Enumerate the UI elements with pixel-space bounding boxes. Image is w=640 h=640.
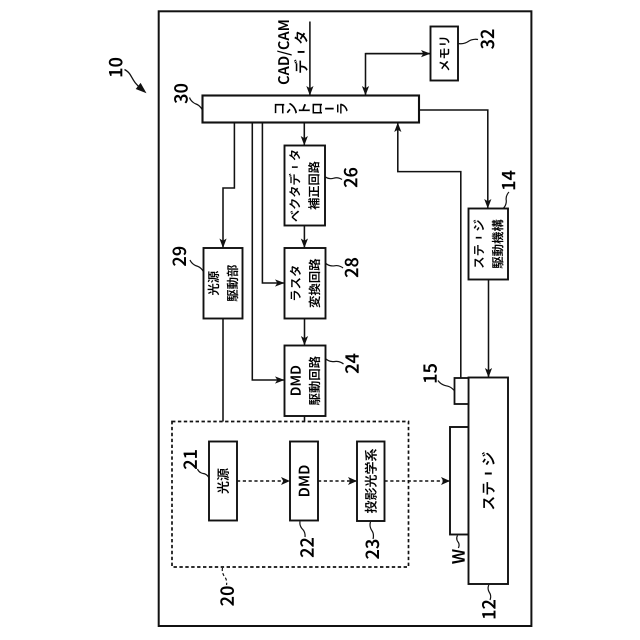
DMD box 22 [290,442,318,521]
light source driver box 29 [204,248,243,319]
label 20 [220,586,234,605]
wire controller-memory [366,54,431,96]
wire controller to vector box [303,123,305,146]
squiggle 26 [326,177,343,180]
wire CAD/CAM data input [309,22,311,96]
text projection optics [365,449,377,513]
memory box 32 [431,27,459,81]
text vector data correction [289,150,320,221]
label 10 [109,58,123,77]
text stage drive mechanism [473,219,503,268]
wire DMD drive to DMD [304,416,306,442]
wire stage drive to stage [488,280,490,378]
text light source [217,468,229,493]
text CAD/CAM data [277,20,307,84]
squiggle 28 [326,264,343,269]
light source box 21 [209,442,237,521]
squiggle 15 [438,381,455,392]
squiggle 23 [370,522,373,539]
outer frame [159,11,532,626]
dashed optical path optics to workpiece [385,480,451,482]
label 21 [183,450,197,469]
workpiece W plate [450,427,469,535]
squiggle 14 [504,192,510,208]
label 15 [423,364,437,382]
label 26 [344,168,358,187]
text DMD [299,465,310,496]
text DMD drive circuit [291,356,321,405]
arrow from label 10 to frame [125,70,142,90]
exposure head dashed box 20 [172,422,409,568]
text memory [439,38,449,71]
wire controller to DMD drive [252,123,284,381]
wire light driver to light source [222,319,224,442]
squiggle 12 [488,585,491,600]
label W [452,549,465,564]
label 12 [482,600,496,618]
projection optics box 23 [357,442,385,522]
squiggle 22 [300,522,305,538]
DMD drive circuit box 24 [285,346,326,417]
text raster conversion [290,259,320,308]
dashed optical path light to DMD [237,480,290,482]
label 14 [502,171,515,190]
label 32 [481,29,495,48]
wire feedback sensor to controller [398,123,461,379]
stage box 12 [469,378,509,585]
squiggle 24 [326,359,344,364]
position sensor box 15 [455,378,469,404]
stage drive mechanism box 14 [469,209,509,280]
text stage [482,452,495,509]
label 24 [345,354,359,374]
raster conversion box 28 [285,248,326,319]
squiggle W [457,536,459,549]
label 30 [174,84,188,104]
wire controller to raster [262,123,284,284]
label 23 [365,540,379,559]
squiggle 30 [190,98,203,111]
label 22 [300,538,314,557]
wire controller to light source driver [223,123,234,249]
text controller [275,104,285,113]
squiggle 21 [198,469,210,478]
label 28 [345,258,359,277]
controller box 30 [203,96,420,123]
squiggle 32 [459,39,479,43]
label 29 [172,247,186,266]
vector data correction box 26 [285,146,326,226]
dashed squiggle 20 [222,568,226,585]
wire controller to stage drive [419,110,488,209]
text light source driver [208,265,239,302]
wire vector to raster [303,226,305,249]
wire raster to DMD drive [304,319,306,346]
squiggle 29 [190,260,204,272]
dashed optical path DMD to optics [318,480,357,482]
